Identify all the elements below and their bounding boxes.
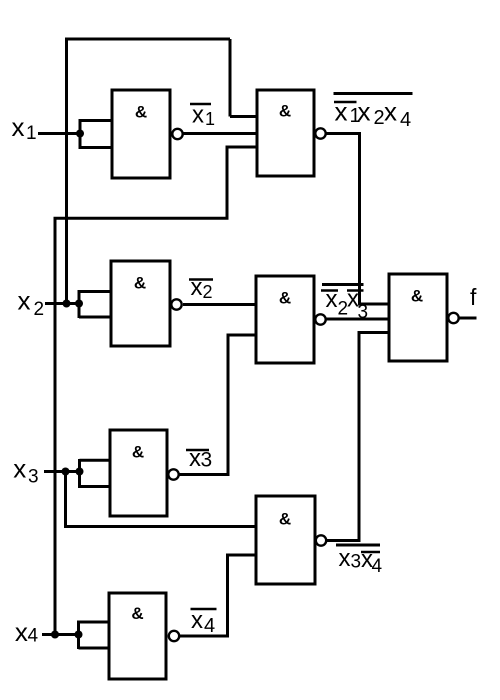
svg-text:&: & xyxy=(131,604,143,623)
svg-text:4: 4 xyxy=(400,109,411,131)
svg-text:2: 2 xyxy=(203,282,213,302)
NAND gate U6 (x3·x̄4) xyxy=(256,496,315,584)
label NOT-x3 xyxy=(186,445,212,472)
node: junction x1 split xyxy=(76,130,84,138)
bubble U1 output xyxy=(172,129,182,139)
bubble U2 output xyxy=(315,128,325,138)
svg-text:4: 4 xyxy=(28,626,39,647)
label NOT-x2 xyxy=(189,274,213,302)
wire: U4 input loop xyxy=(79,290,111,318)
bubble U8 output xyxy=(169,631,179,641)
wire: x2 input xyxy=(45,302,79,305)
svg-text:2: 2 xyxy=(374,107,385,129)
label NAND(x3,x̄4) xyxy=(336,545,383,577)
wire: top feedback x2 to U2 input 1 xyxy=(65,39,257,304)
svg-text:x: x xyxy=(192,102,204,129)
wire: U2 output down to U7 input 1 xyxy=(326,134,389,305)
svg-text:&: & xyxy=(279,102,291,121)
svg-text:3: 3 xyxy=(358,302,369,323)
svg-text:&: & xyxy=(135,103,147,122)
node: junction x2 to feedback xyxy=(63,300,71,308)
wire: x4 feed up to U2 input 3 xyxy=(55,147,257,635)
svg-text:4: 4 xyxy=(372,556,383,577)
bubble U7 output xyxy=(448,313,458,323)
node: junction x4 to feed line xyxy=(51,631,59,639)
wire: U3 output to U7 input 2 xyxy=(326,318,389,321)
bubble U6 output xyxy=(316,535,326,545)
svg-text:x: x xyxy=(384,97,397,127)
NAND gate U1 (inverter for x1) xyxy=(112,90,170,178)
NAND gate U4 (inverter for x2) xyxy=(111,261,170,346)
node: junction x3 split xyxy=(76,468,84,476)
wire: x3 down to U6 input 1 xyxy=(66,472,257,527)
label NAND(x̄2,x̄3) xyxy=(321,285,368,324)
wire: f output xyxy=(459,317,477,320)
wire: NOT-x3 up to U3 input 2 xyxy=(179,335,256,475)
svg-text:1: 1 xyxy=(26,123,37,144)
wire: U6 output up to U7 input 3 xyxy=(326,333,389,541)
NAND gate U2 (x̄1·x2·x4) xyxy=(257,90,314,176)
label input x4 xyxy=(15,617,39,647)
bubble U4 output xyxy=(171,299,181,309)
NAND gate U5 (inverter for x3) xyxy=(110,430,167,516)
node: junction x2 split xyxy=(75,300,83,308)
NAND gate U8 (inverter for x4) xyxy=(109,593,166,679)
bubble U5 output xyxy=(168,469,178,479)
NAND gate U7 (output gate f) xyxy=(389,274,447,361)
wire: x4 input xyxy=(42,633,79,636)
svg-text:x: x xyxy=(335,97,348,127)
svg-text:3: 3 xyxy=(28,467,39,488)
svg-text:f: f xyxy=(470,284,477,310)
svg-text:x: x xyxy=(326,286,338,313)
svg-text:x: x xyxy=(12,112,25,142)
bubble U3 output xyxy=(315,314,325,324)
label NOT-x4 xyxy=(191,607,217,637)
wire: x1 input xyxy=(38,132,80,135)
svg-text:x: x xyxy=(191,274,203,301)
svg-text:x: x xyxy=(189,445,201,472)
wire: U8 input loop xyxy=(79,621,110,650)
wire: U1 input loop xyxy=(80,119,112,149)
svg-text:3: 3 xyxy=(351,552,362,573)
svg-text:x: x xyxy=(18,286,31,316)
svg-text:&: & xyxy=(134,274,146,293)
svg-text:&: & xyxy=(411,287,423,306)
label NOT-x1 xyxy=(190,102,215,130)
label input x1 xyxy=(12,112,37,144)
svg-text:4: 4 xyxy=(204,615,215,637)
svg-text:1: 1 xyxy=(205,109,215,129)
label input x3 xyxy=(13,454,38,488)
svg-text:x: x xyxy=(191,607,203,634)
node: junction x3 to U6 feed xyxy=(62,468,70,476)
wire: NOT-x4 up to U6 input 2 xyxy=(180,555,256,636)
wire: NOT-x1 to U2 input 2 xyxy=(183,132,257,135)
svg-text:2: 2 xyxy=(34,299,45,320)
svg-text:&: & xyxy=(279,289,291,308)
svg-text:x: x xyxy=(13,454,26,484)
label input x2 xyxy=(18,286,45,321)
wire: x3 input xyxy=(44,470,80,473)
wire: NOT-x2 to U3 input 1 xyxy=(183,303,256,306)
svg-text:x: x xyxy=(15,617,28,647)
node: junction x4 split xyxy=(75,631,83,639)
wire: U5 input loop xyxy=(80,459,111,488)
svg-text:&: & xyxy=(132,443,144,462)
svg-text:x: x xyxy=(358,97,371,127)
svg-text:&: & xyxy=(279,510,291,529)
NAND gate U3 (x̄2·x̄3) xyxy=(256,276,314,363)
label NAND(x̄1,x2,x4) xyxy=(334,94,413,132)
svg-text:3: 3 xyxy=(201,449,213,472)
svg-text:x: x xyxy=(339,545,351,572)
